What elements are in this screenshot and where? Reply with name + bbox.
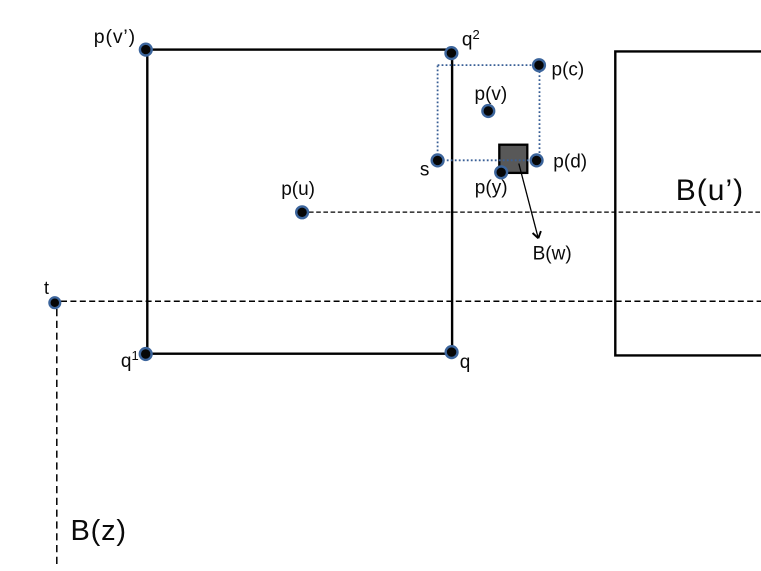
point t	[49, 297, 60, 308]
dashed line from p(u) to right edge	[309, 211, 761, 213]
svg-text:p(v’): p(v’)	[94, 26, 136, 48]
box B(u') right square (clipped at right edge)	[615, 51, 761, 355]
point p(u)	[296, 206, 308, 218]
point q1	[140, 348, 152, 360]
svg-text:p(d): p(d)	[553, 152, 587, 173]
svg-text:B(u’): B(u’)	[676, 174, 744, 207]
svg-text:p(u): p(u)	[281, 179, 315, 200]
svg-text:p(v): p(v)	[475, 84, 508, 105]
point s	[432, 155, 444, 167]
dashed vertical line below t (B(z) boundary)	[56, 309, 58, 564]
point p(v)	[482, 105, 494, 117]
arrow from gray square to B(w) label	[519, 164, 541, 239]
point p(d)	[531, 155, 543, 167]
svg-text:s: s	[420, 160, 430, 181]
svg-text:p(c): p(c)	[552, 59, 585, 80]
svg-text:p(y): p(y)	[475, 177, 508, 198]
dotted blue square around p(v)	[438, 65, 540, 160]
point p(v')	[140, 44, 152, 56]
dashed line from t to right edge	[61, 300, 761, 302]
svg-text:B(z): B(z)	[71, 515, 127, 547]
svg-text:q: q	[460, 352, 471, 373]
point q2	[446, 47, 458, 59]
gray filled square B(w)	[499, 145, 527, 173]
point p(y)	[495, 166, 507, 178]
point p(c)	[533, 59, 545, 71]
svg-text:t: t	[44, 278, 49, 298]
svg-text:B(w): B(w)	[533, 243, 572, 264]
point q	[446, 346, 458, 358]
box B(v) main square	[147, 50, 452, 354]
